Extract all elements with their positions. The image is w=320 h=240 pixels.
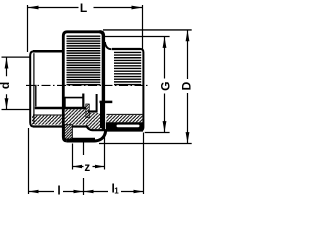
svg-text:z: z bbox=[84, 162, 90, 174]
socket bore inner face (section) bbox=[35, 85, 37, 107]
svg-text:G: G bbox=[158, 82, 172, 91]
dim z ext left bbox=[72, 144, 74, 170]
dim D extension bottom bbox=[99, 143, 192, 145]
dim d arrow down bbox=[5, 98, 9, 109]
nut top edge bbox=[67, 30, 100, 33]
dim D line bbox=[187, 30, 189, 144]
dim d arrow up bbox=[5, 58, 9, 69]
dim L arrow right bbox=[132, 6, 143, 10]
section vertical C bbox=[96, 94, 98, 111]
socket bottom edge bbox=[33, 125, 88, 127]
dim l1 arrow left bbox=[84, 190, 94, 193]
svg-text:d: d bbox=[0, 82, 12, 89]
dim L extension right bbox=[142, 5, 144, 49]
dim G extension bottom bbox=[145, 132, 170, 134]
dim L arrow left bbox=[28, 6, 39, 10]
nut section wall block B1 bbox=[64, 125, 72, 139]
dim l1 ext right bbox=[143, 133, 145, 195]
male right face bbox=[141, 49, 144, 131]
dim l line bbox=[29, 191, 84, 193]
dim z ext right bbox=[104, 133, 106, 170]
dim l1 line bbox=[84, 191, 144, 193]
dim G line bbox=[164, 37, 166, 133]
union face vertical B bbox=[82, 94, 84, 109]
thick step line H3 bbox=[88, 110, 98, 112]
dim d extension top bbox=[2, 56, 30, 58]
dim L line bbox=[28, 7, 143, 9]
dim d extension bottom bbox=[2, 109, 30, 111]
male bore top boundary (section) bbox=[106, 113, 142, 115]
spigot through-bore seat line bbox=[65, 97, 84, 99]
dim z line bbox=[73, 166, 105, 168]
svg-text:1: 1 bbox=[114, 187, 119, 196]
dim d line bbox=[6, 57, 8, 109]
center hatch mass M bbox=[87, 113, 104, 129]
dim l1 arrow right bbox=[134, 190, 144, 193]
dim L extension left bbox=[27, 5, 29, 52]
dim l ext left bbox=[28, 128, 30, 194]
male union end thick vertical D bbox=[100, 103, 104, 129]
dim G extension top bbox=[105, 36, 170, 38]
male thread band (section, dark) bbox=[106, 122, 143, 130]
socket top edge bbox=[33, 50, 64, 53]
dim D arrow down bbox=[186, 132, 190, 143]
dim D extension top bbox=[103, 29, 192, 31]
socket wall hatch region bbox=[32, 109, 87, 124]
male thread lines bbox=[114, 52, 141, 84]
thread relief groove (white slot) bbox=[117, 125, 140, 128]
gasket slot S (dark) bbox=[86, 104, 90, 118]
dim D arrow up bbox=[186, 30, 190, 41]
svg-text:l: l bbox=[57, 184, 60, 198]
nut section wall bar B2 bbox=[72, 138, 95, 142]
socket chamfer line bbox=[33, 53, 35, 124]
socket bore bottom line (section) bbox=[35, 107, 87, 110]
dim G arrow down bbox=[163, 121, 167, 132]
dim G arrow up bbox=[163, 37, 167, 48]
centerline bbox=[26, 84, 148, 86]
socket hatch top boundary bbox=[33, 114, 65, 116]
nut knurl lines bbox=[67, 36, 101, 84]
center bottom edge bbox=[86, 125, 106, 130]
spigot step face A bbox=[64, 97, 66, 109]
dim l arrow right bbox=[74, 190, 84, 193]
shared ext line l/l1 bbox=[83, 143, 85, 196]
dim z arrow right bbox=[95, 165, 105, 168]
svg-text:D: D bbox=[179, 81, 193, 90]
socket outer face line bbox=[30, 51, 34, 126]
svg-text:L: L bbox=[80, 1, 87, 15]
nut left face bbox=[63, 32, 67, 141]
male wall hatch (section) bbox=[106, 115, 142, 122]
dim z arrow left bbox=[73, 165, 83, 168]
male thread OD top edge bbox=[112, 48, 141, 50]
nut bottom edge and right bottom corner bbox=[67, 131, 106, 141]
nut right face bbox=[100, 32, 104, 130]
dim l arrow left bbox=[29, 190, 39, 193]
male union end top edge H4 bbox=[100, 101, 113, 104]
male shoulder fillet bbox=[105, 42, 112, 49]
male bottom edge to nut corner bbox=[106, 129, 143, 131]
